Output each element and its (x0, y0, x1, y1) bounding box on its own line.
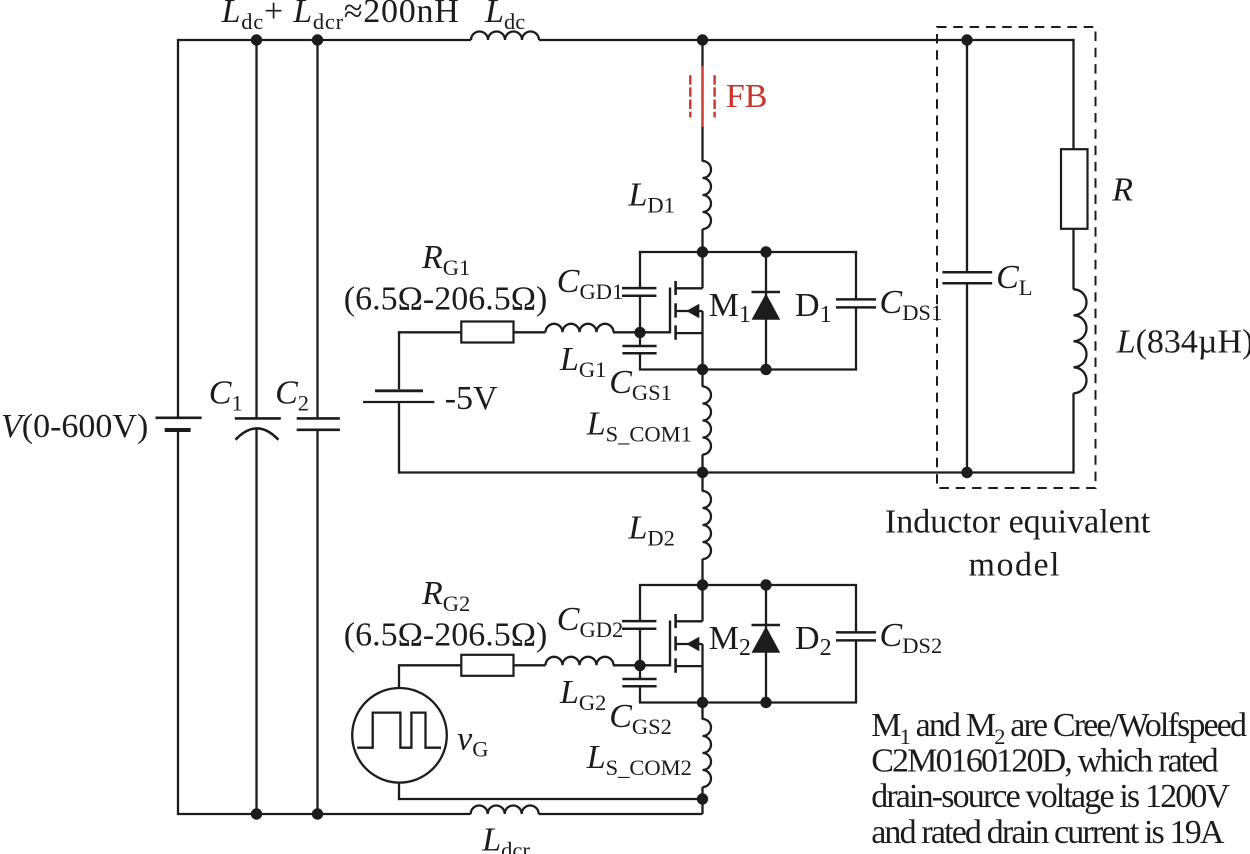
wire L to mid rail (1072, 393, 1074, 473)
node cell2 gate (634, 660, 645, 671)
wire RG1 to LG1 (514, 331, 546, 333)
wire cell1 bottom rail (639, 368, 857, 370)
label LS_COM1 (586, 406, 692, 447)
node top rail / phase column (697, 34, 708, 45)
wire LG2 to gate node (613, 664, 640, 666)
transistor M2 gate lead (640, 664, 670, 666)
FB dashed marker right (713, 75, 715, 117)
transistor M2 gate bar (669, 621, 671, 667)
wire cell1 right edge segments (855, 252, 857, 370)
capacitor CGS1 plates (622, 346, 656, 353)
label CGD2 (557, 601, 623, 642)
wire LD1 to cell1 (701, 229, 703, 252)
inductor Ldc (top coil) (471, 32, 539, 40)
wire phase column above FB (701, 40, 703, 67)
diode D2 (752, 585, 781, 703)
svg-text:FB: FB (726, 78, 768, 115)
wire LS_COM2 to bottom node (701, 787, 703, 799)
FB dashed marker left (689, 75, 691, 117)
inductor Ldcr coil (471, 806, 539, 815)
svg-text:model: model (969, 547, 1061, 584)
node cell2 bottom diode (760, 697, 771, 708)
inductor LS_COM1 coil (703, 370, 712, 455)
label CL (996, 259, 1032, 300)
inductor LD2 coil (703, 473, 712, 560)
note MOSFET description (871, 707, 1247, 851)
wire FB to LD1 (701, 127, 703, 161)
capacitor CGD1 plates (622, 288, 656, 296)
wire -5V battery top lead (398, 332, 400, 389)
label Ldc+Ldcr approx 200nH (221, 0, 460, 34)
svg-text:drain-source voltage is 1200V: drain-source voltage is 1200V (871, 778, 1230, 815)
svg-text:Inductor equivalent: Inductor equivalent (885, 504, 1151, 541)
label R (1111, 172, 1133, 209)
label FB (726, 78, 768, 115)
svg-text:(6.5Ω-206.5Ω): (6.5Ω-206.5Ω) (344, 617, 548, 654)
svg-text:R: R (1111, 172, 1133, 209)
wire RG2 left lead (398, 664, 461, 666)
svg-text:C2M0160120D, which rated: C2M0160120D, which rated (871, 743, 1218, 780)
svg-text:(6.5Ω-206.5Ω): (6.5Ω-206.5Ω) (344, 281, 548, 318)
node bottom rail / C1 (251, 808, 262, 819)
battery -5V plates (363, 391, 434, 402)
label CGS2 (609, 698, 672, 739)
label RG2 (421, 575, 470, 616)
inductor LG2 coil (546, 657, 614, 666)
label RG1 value (344, 281, 548, 318)
wire -5V battery bottom lead (398, 403, 400, 474)
capacitor CGS2 plates (622, 679, 656, 686)
transistor M2 drain lead (676, 585, 703, 621)
label CDS1 (880, 284, 943, 325)
transistor M1 body lead with arrow (676, 304, 703, 318)
wire bottom rail (178, 799, 703, 814)
label M1 (709, 287, 751, 328)
transistor M2 source lead (676, 644, 703, 703)
wire FB red segment (701, 66, 704, 128)
wire CL branch (966, 40, 968, 473)
label LD2 (628, 509, 675, 550)
label inductor equivalent model (885, 504, 1151, 584)
capacitor CDS1 plates (836, 299, 876, 307)
transistor M1 drain lead (676, 252, 703, 288)
diode D1 (752, 252, 781, 370)
resistor R (load model) (1061, 149, 1088, 229)
transistor M1 gate lead (640, 331, 670, 333)
wire mid rail (399, 471, 1074, 473)
wire vG source bottom lead (398, 783, 400, 801)
transistor M2 body lead with arrow (676, 637, 703, 651)
label LG2 (559, 674, 606, 715)
capacitor C2 plates (297, 418, 340, 429)
wire top DC bus rail (178, 39, 1074, 41)
svg-text:L(834µH): L(834µH) (1116, 323, 1250, 360)
node cell1 bottom source (697, 364, 708, 375)
capacitor CGD2 plates (622, 621, 656, 629)
resistor RG1 (461, 322, 513, 343)
wire R branch top (1072, 39, 1074, 149)
wire RG1 left lead (398, 331, 461, 333)
label LG1 (559, 341, 606, 382)
wire LD2 to cell2 (701, 559, 703, 585)
wire left rail (V source branch) (177, 39, 179, 815)
wire RG2 to LG2 (514, 664, 546, 666)
label Ldc (484, 0, 525, 34)
transistor M2 channel bar segments (674, 614, 677, 673)
node mid rail / phase (697, 467, 708, 478)
node cell1 bottom diode (760, 364, 771, 375)
wire cell2 bottom rail (639, 701, 857, 703)
battery V (0-600V) plates (156, 418, 202, 430)
inductor model dashed box (937, 27, 1096, 488)
wire cell2 right edge segments (855, 585, 857, 703)
label vG (457, 721, 488, 762)
wire LG1 to gate node (613, 331, 640, 333)
node cell2 top diode (760, 579, 771, 590)
inductor LS_COM2 coil (703, 703, 712, 788)
label RG2 value (344, 617, 548, 654)
label Ldcr (481, 822, 530, 854)
transistor M1 source lead (676, 311, 703, 370)
wire cell2 top rail (639, 584, 857, 586)
label CDS2 (880, 617, 943, 658)
wire cell2 left edge segments (639, 585, 641, 703)
inductor LD1 coil (703, 161, 712, 229)
label CGD1 (557, 263, 623, 304)
wire cell1 top rail (639, 251, 857, 253)
svg-text:and rated drain current is 19A: and rated drain current is 19A (871, 814, 1225, 851)
node bottom rail / C2 (312, 808, 323, 819)
transistor M1 gate bar (669, 288, 671, 334)
wire cell1 left edge segments (639, 252, 641, 370)
source vG circle (352, 688, 447, 783)
label L(834uH) (1116, 323, 1250, 360)
node mid rail / CL (961, 467, 972, 478)
inductor LG1 coil (546, 324, 614, 333)
node top rail / C2 (312, 34, 323, 45)
resistor RG2 (461, 655, 513, 676)
label -5V (445, 380, 498, 417)
label C1 (209, 375, 243, 416)
node cell2 bottom source (697, 697, 708, 708)
wire C1 branch (255, 40, 257, 814)
node cell1 top drain (697, 246, 708, 257)
svg-text:V(0-600V): V(0-600V) (1, 408, 148, 445)
source vG pulse waveform (357, 713, 441, 748)
node cell2 top drain (697, 579, 708, 590)
capacitor CDS2 plates (836, 632, 876, 640)
label D2 (795, 620, 832, 661)
wire C2 branch (316, 40, 318, 814)
label LS_COM2 (586, 739, 692, 780)
wire LS_COM1 to mid node (701, 455, 703, 473)
node cell1 gate (634, 327, 645, 338)
node top rail / CL (961, 34, 972, 45)
inductor L load coil (1074, 289, 1087, 393)
wire R to L (1072, 229, 1074, 290)
node top rail / C1 (251, 34, 262, 45)
svg-text:-5V: -5V (445, 380, 498, 417)
wire vG source top lead (398, 665, 400, 688)
capacitor C1 (polarized) (235, 418, 281, 439)
label LD1 (628, 176, 675, 217)
label V(0-600V) (1, 408, 148, 445)
label D1 (795, 287, 832, 328)
transistor M1 channel bar segments (674, 281, 677, 340)
node cell1 top diode (760, 246, 771, 257)
label C2 (275, 375, 309, 416)
capacitor CL plates (942, 272, 992, 283)
label RG1 (421, 239, 470, 280)
label M2 (709, 620, 751, 661)
label CGS1 (609, 364, 672, 405)
node vG loop / source column (697, 793, 708, 804)
wire vG loop bottom (398, 798, 703, 800)
